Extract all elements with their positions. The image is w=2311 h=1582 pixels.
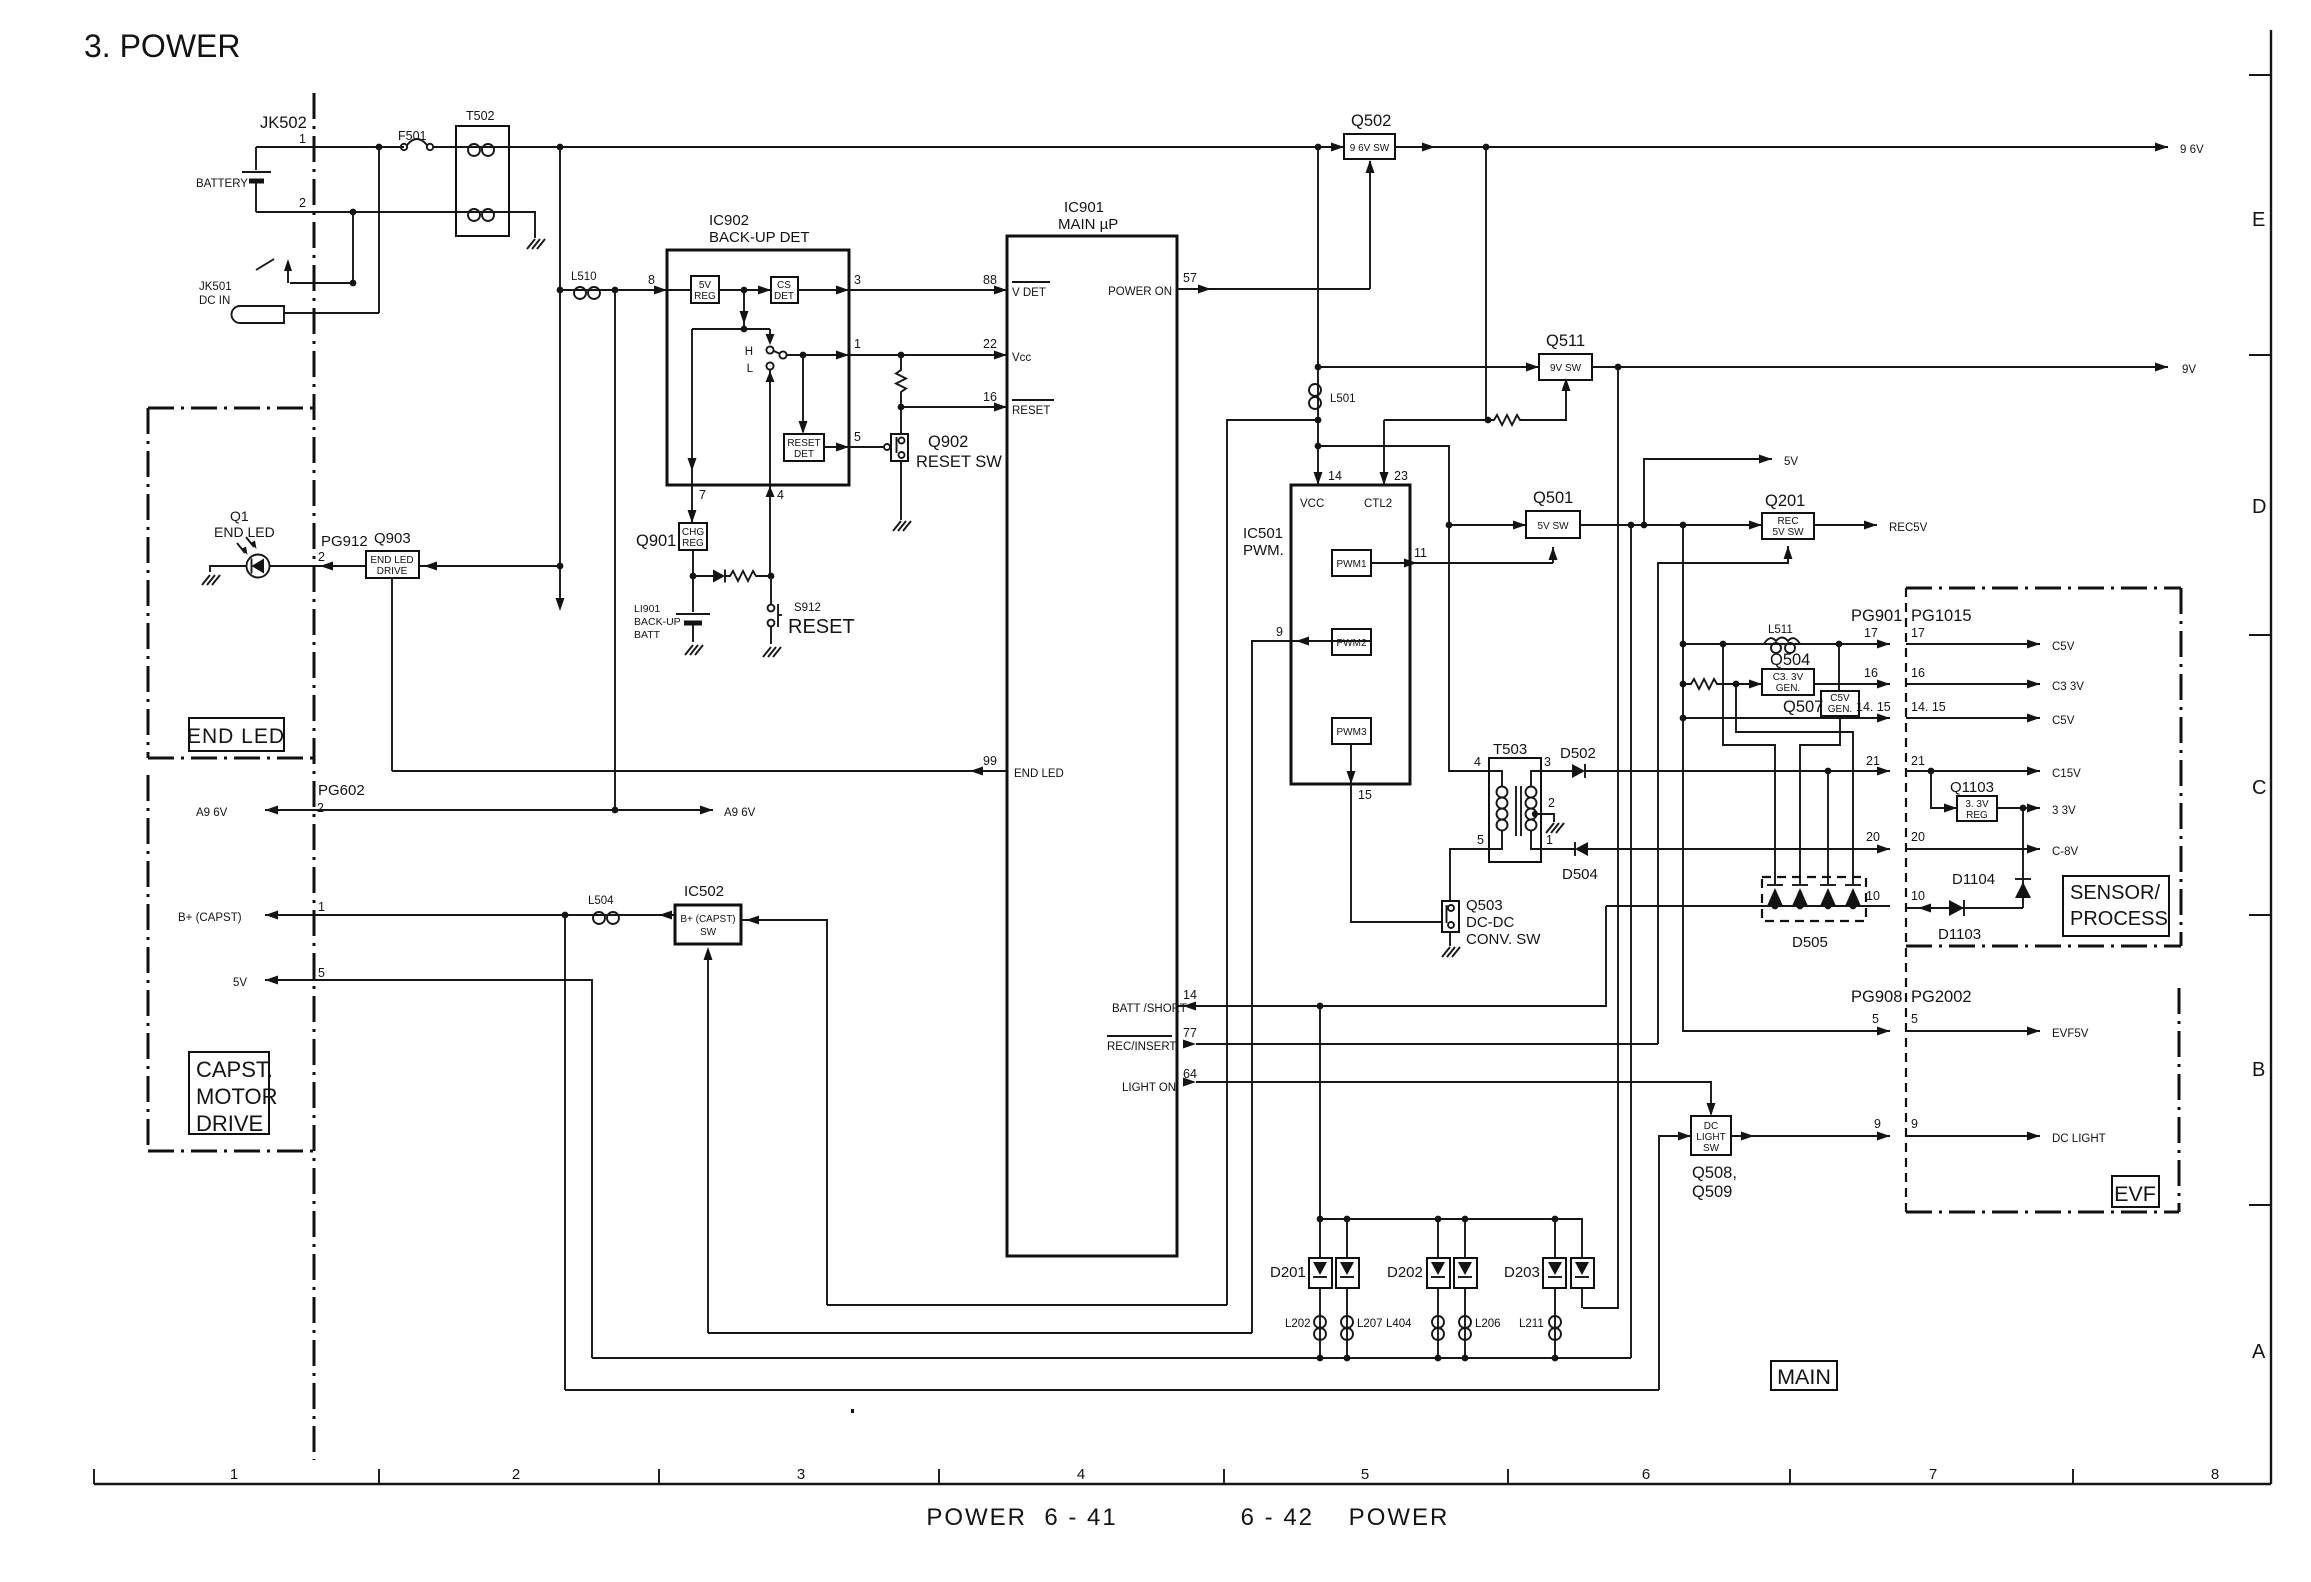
node Q502 out junction <box>1483 144 1490 151</box>
inductor L211 <box>1549 1316 1561 1340</box>
node fuse net junction <box>557 144 564 151</box>
svg-text:EVF: EVF <box>2114 1182 2156 1206</box>
svg-text:Q1: Q1 <box>230 508 249 524</box>
arrow PG912 pin2 left <box>320 562 333 571</box>
inductor L404 <box>1432 1316 1444 1340</box>
wire PWM2 jog bus <box>708 1332 1252 1334</box>
wire jack switch vertical <box>352 212 354 283</box>
transistor Q502 box <box>1344 134 1395 159</box>
wire T503 pin5 to Q503 <box>1450 849 1489 901</box>
battery symbol <box>242 172 271 181</box>
inductor L501 <box>1309 384 1321 409</box>
svg-text:REG: REG <box>1966 810 1988 821</box>
wire A96V net vertical <box>614 290 616 810</box>
node Q901 diode junction <box>690 573 697 580</box>
IC501 PWM box <box>1291 485 1410 784</box>
svg-text:2: 2 <box>512 1466 520 1483</box>
wire D504 to pin20 row <box>1588 848 1890 850</box>
svg-text:PG901: PG901 <box>1851 607 1902 625</box>
wire 5V REG to CS DET <box>719 289 771 291</box>
svg-text:PWM3: PWM3 <box>1337 727 1367 738</box>
node D505-1 bottom <box>1772 903 1779 910</box>
arrow into IC502 bottom <box>704 947 713 960</box>
fuse F501 <box>401 139 433 150</box>
wire 9V net vertical to D203 <box>1583 367 1618 1308</box>
svg-text:Q201: Q201 <box>1765 492 1805 510</box>
wire pin2 row <box>256 211 456 213</box>
wire H drop <box>769 329 771 343</box>
svg-text:Q903: Q903 <box>374 530 411 547</box>
wire B+ CAPST row <box>265 914 675 916</box>
svg-text:C15V: C15V <box>2052 768 2081 780</box>
wire C5V jog to D505-1 <box>1723 644 1775 884</box>
svg-text:D201: D201 <box>1270 1264 1306 1281</box>
wire RESET row <box>901 406 1007 408</box>
svg-text:5: 5 <box>1911 1012 1918 1026</box>
wire D203a to coil <box>1554 1288 1556 1358</box>
arrow into IC902 pin8 <box>654 286 667 295</box>
inductor L504 <box>593 912 619 924</box>
svg-text:L202: L202 <box>1285 1318 1311 1330</box>
arrow REC5V <box>1864 521 1877 530</box>
svg-text:IC902: IC902 <box>709 212 749 229</box>
svg-text:DC IN: DC IN <box>199 295 230 307</box>
svg-text:LIGHT ON: LIGHT ON <box>1122 1082 1176 1094</box>
node Q1103 feed <box>1928 768 1935 775</box>
wire DC LIGHT SW output <box>1731 1135 1890 1137</box>
DC IN plug symbol <box>232 306 285 323</box>
wire PWM2 pin9 row <box>1252 641 1371 1333</box>
svg-text:END LED: END LED <box>370 555 413 566</box>
wire pin10 sensor row <box>1906 907 2023 909</box>
wire pin1 row <box>256 146 404 148</box>
wire LIGHT ON row <box>1196 1082 1711 1114</box>
node 9V tap <box>1315 364 1322 371</box>
pin 5 labels <box>1872 1012 1918 1026</box>
arrow END LED out of IC901 <box>970 767 983 776</box>
arrow into Q903 <box>424 562 437 571</box>
arrow into IC501 VCC pin14 <box>1314 472 1323 485</box>
CAPST board dash-dot box <box>148 775 314 1151</box>
svg-text:BATTERY: BATTERY <box>196 178 248 190</box>
svg-text:DRIVE: DRIVE <box>196 1111 263 1136</box>
arrow B+ CAPST left <box>265 911 278 920</box>
svg-text:10: 10 <box>1866 889 1880 903</box>
svg-text:5V: 5V <box>233 977 247 989</box>
frame tick row E/D boundary <box>2249 74 2271 76</box>
diode D505-3 <box>1820 885 1836 906</box>
transistor Q511 box <box>1539 354 1592 380</box>
arrow pin9 boundary <box>1877 1132 1890 1141</box>
node bus L404 <box>1435 1355 1442 1362</box>
svg-text:PG2002: PG2002 <box>1911 988 1972 1006</box>
svg-text:DC: DC <box>1704 1121 1718 1132</box>
arrow 9 6V <box>2155 143 2168 152</box>
wire T503 pin1 row <box>1541 848 1575 850</box>
wire F501 to T502 <box>433 146 456 148</box>
switch H/L contacts <box>745 346 787 375</box>
svg-text:17: 17 <box>1911 626 1925 640</box>
svg-text:EVF5V: EVF5V <box>2052 1028 2089 1040</box>
pin 21 labels <box>1866 754 1925 768</box>
svg-text:IC901: IC901 <box>1064 199 1104 216</box>
wire PWM1 pin11 row <box>1371 562 1553 564</box>
wire EVF5V row <box>1906 1030 2040 1032</box>
node Q511 out junction <box>1615 364 1622 371</box>
svg-text:6: 6 <box>1642 1466 1650 1483</box>
pin 20 labels <box>1866 830 1925 844</box>
svg-text:Q1103: Q1103 <box>1950 779 1994 796</box>
SENSOR/PROCESS board dash-dot box <box>1906 588 2181 946</box>
svg-text:L510: L510 <box>571 271 597 283</box>
svg-text:L211: L211 <box>1519 1318 1544 1330</box>
MAIN board name box <box>1771 1361 1837 1390</box>
svg-text:GEN.: GEN. <box>1828 704 1852 715</box>
node Q501 input tap <box>1446 522 1453 529</box>
svg-text:REC5V: REC5V <box>1889 522 1928 534</box>
T503 primary winding <box>1489 771 1508 849</box>
node L510 tap <box>557 287 564 294</box>
node bus L207 <box>1344 1355 1351 1362</box>
svg-text:10: 10 <box>1911 889 1925 903</box>
svg-text:A9 6V: A9 6V <box>196 807 228 819</box>
svg-text:15: 15 <box>1358 788 1372 802</box>
svg-text:CHG: CHG <box>682 527 704 538</box>
svg-text:20: 20 <box>1866 830 1880 844</box>
arrow A9 6V left <box>265 806 278 815</box>
transformer T502 box <box>456 126 509 236</box>
switch DC LIGHT SW box <box>1691 1116 1731 1155</box>
arrow into IC901 pin88 <box>994 286 1007 295</box>
ground T503 pin2 <box>1546 823 1564 833</box>
arrow into Q501 bottom <box>1549 547 1558 560</box>
wire C3 3V sensor row <box>1906 683 2040 685</box>
wire D505-3 to C15V row <box>1827 771 1829 884</box>
svg-text:2: 2 <box>318 550 325 564</box>
wire Q201 out <box>1814 524 1877 526</box>
arrow pin4 up at box edge <box>766 486 775 497</box>
arrow into RESET DET <box>799 421 808 434</box>
node 14.15 row <box>1680 715 1687 722</box>
wire Q504 out <box>1814 683 1890 685</box>
diode array D505 dashed box <box>1762 877 1866 921</box>
arrow pin15 down <box>1347 771 1356 784</box>
main board dash-dot boundary <box>313 93 316 1460</box>
T502 primary winding <box>456 144 509 156</box>
svg-text:Q504: Q504 <box>1770 651 1810 669</box>
diode D1104 <box>2015 879 2031 898</box>
svg-text:22: 22 <box>983 337 997 351</box>
svg-text:JK502: JK502 <box>260 114 307 132</box>
wire battery net vertical <box>559 147 561 600</box>
svg-text:DET: DET <box>794 449 814 460</box>
IC502 B+ CAPST SW box <box>675 905 741 944</box>
wire S912 to ground <box>770 626 772 644</box>
svg-text:IC502: IC502 <box>684 883 724 900</box>
svg-text:8: 8 <box>2211 1466 2219 1483</box>
wire C-8V sensor row <box>1906 848 2040 850</box>
wire Q201 control riser <box>1658 546 1788 1044</box>
svg-text:L207: L207 <box>1357 1318 1383 1330</box>
wire T503 pin4 feed <box>1318 446 1489 771</box>
svg-text:2: 2 <box>299 196 306 210</box>
node D505 diode3 tap <box>1825 768 1832 775</box>
wire RESET DET drop <box>802 355 804 432</box>
svg-text:3. POWER: 3. POWER <box>84 28 240 64</box>
svg-text:L404: L404 <box>1386 1318 1412 1330</box>
diode D502 <box>1572 764 1585 778</box>
wire Q511 control resistor row <box>1384 419 1488 421</box>
svg-text:PROCESS: PROCESS <box>2070 908 2168 930</box>
arrow pin14.15 <box>1877 714 1890 723</box>
arrow into IC502 right edge <box>746 916 759 925</box>
wire L501 left jog <box>1227 420 1318 1305</box>
wire B+ bottom bus <box>565 1389 1659 1391</box>
svg-text:BACK-UP DET: BACK-UP DET <box>709 229 810 246</box>
wire 5V bus riser <box>1630 525 1632 1358</box>
svg-text:VCC: VCC <box>1300 498 1324 510</box>
svg-text:9V: 9V <box>2182 364 2196 376</box>
wire Q902 to ground <box>900 461 902 520</box>
right frame border line <box>2270 30 2272 1484</box>
wire T502 secondary to ground <box>509 212 535 238</box>
SENSOR/PROCESS name box <box>2063 876 2169 936</box>
svg-text:RESET: RESET <box>788 616 855 638</box>
wire B+ vertical to bus2 <box>564 915 566 1390</box>
wire T502 out top <box>509 146 1344 148</box>
CS DET box <box>771 277 798 303</box>
svg-text:5V SW: 5V SW <box>1772 527 1804 538</box>
arrow pin64 out <box>1183 1078 1196 1087</box>
svg-text:MOTOR: MOTOR <box>196 1084 277 1109</box>
connector PG901 boundary dashed line <box>1905 588 1907 1212</box>
arrow pin10 left <box>1918 904 1931 913</box>
wire pin10 row <box>1606 905 1890 907</box>
arrow into CS DET <box>758 286 771 295</box>
arrow pin16 <box>1877 680 1890 689</box>
svg-text:V DET: V DET <box>1012 287 1046 299</box>
svg-text:Q509: Q509 <box>1692 1183 1732 1201</box>
svg-text:LI901: LI901 <box>634 603 660 615</box>
wire into Q504 <box>1736 683 1762 685</box>
wire DC LIGHT SW input <box>1659 1136 1691 1390</box>
node bus L211 <box>1552 1355 1559 1362</box>
wire T503 pin3 row <box>1541 770 1572 772</box>
wire D202a to coil <box>1437 1288 1439 1358</box>
svg-text:RESET SW: RESET SW <box>916 453 1002 471</box>
svg-text:9V SW: 9V SW <box>1550 363 1582 374</box>
svg-text:2: 2 <box>1548 796 1555 810</box>
arrow pin21 <box>1877 767 1890 776</box>
wire LI901 to ground <box>692 625 694 642</box>
pin 9 labels <box>1874 1117 1918 1131</box>
node Vcc resistor tap <box>898 352 905 359</box>
node top bus D201b <box>1344 1216 1351 1223</box>
arrow pin3 <box>836 286 849 295</box>
svg-text:2: 2 <box>317 801 324 815</box>
node L510 out <box>612 287 619 294</box>
ground LI901 <box>685 645 703 655</box>
svg-text:4: 4 <box>1077 1466 1085 1483</box>
arrow battery net stub down <box>556 598 565 611</box>
svg-text:D505: D505 <box>1792 934 1828 951</box>
wire POWER ON row <box>1177 288 1370 290</box>
svg-text:5: 5 <box>1872 1012 1879 1026</box>
node D505-2 bottom <box>1797 903 1804 910</box>
svg-text:IC501: IC501 <box>1243 525 1283 542</box>
inductor L206 <box>1459 1316 1471 1340</box>
wire D1104 vertical <box>2022 808 2024 908</box>
node RESET row <box>898 404 905 411</box>
svg-text:5V: 5V <box>699 280 712 291</box>
wire 5V bottom bus <box>592 1357 1631 1359</box>
wire battery to pin2 row <box>255 183 257 212</box>
svg-text:CONV. SW: CONV. SW <box>1466 931 1541 948</box>
node C5V feed tap <box>1680 522 1687 529</box>
svg-text:9: 9 <box>1874 1117 1881 1131</box>
arrow into Q1103 <box>1944 804 1957 813</box>
svg-text:CTL2: CTL2 <box>1364 498 1392 510</box>
node A9 6V junction <box>612 807 619 814</box>
svg-text:PWM2: PWM2 <box>1337 638 1367 649</box>
svg-text:SW: SW <box>700 927 717 938</box>
svg-text:9 6V SW: 9 6V SW <box>1350 143 1390 154</box>
arrow A9 6V right <box>700 806 713 815</box>
node pin1/DCin junction <box>376 144 383 151</box>
svg-text:5: 5 <box>1477 833 1484 847</box>
wire pin11 up to Q501 control <box>1552 547 1554 563</box>
svg-text:H: H <box>745 346 753 358</box>
svg-text:BATT /SHORT: BATT /SHORT <box>1112 1003 1187 1015</box>
wire Q502 control vertical <box>1369 161 1371 289</box>
stray dot mark <box>851 1409 854 1413</box>
wire Q501 out row <box>1580 524 1762 526</box>
svg-text:11: 11 <box>1414 546 1427 560</box>
svg-text:POWER ON: POWER ON <box>1108 286 1172 298</box>
svg-text:PWM1: PWM1 <box>1337 559 1367 570</box>
svg-text:B: B <box>2252 1059 2265 1081</box>
svg-text:C3 3V: C3 3V <box>2052 681 2084 693</box>
svg-text:BACK-UP: BACK-UP <box>634 616 681 628</box>
wire CS DET to pin3 / V DET row <box>798 289 1007 291</box>
arrow C5V2 <box>2027 714 2040 723</box>
svg-text:5V: 5V <box>1784 456 1798 468</box>
svg-text:D203: D203 <box>1504 1264 1540 1281</box>
node BATT/SHORT diode bus tap <box>1317 1003 1324 1010</box>
svg-text:JK501: JK501 <box>199 281 232 293</box>
svg-text:5V SW: 5V SW <box>1537 521 1569 532</box>
svg-text:SENSOR/: SENSOR/ <box>2070 882 2160 904</box>
svg-text:S912: S912 <box>794 602 821 614</box>
IC901 RESET pin text <box>1012 400 1054 417</box>
ruler ticks <box>93 1469 95 1484</box>
wire IC902 pin7 vertical <box>691 329 693 523</box>
node D505-4 bottom <box>1850 903 1857 910</box>
svg-text:D1103: D1103 <box>1938 926 1981 943</box>
svg-text:C5V: C5V <box>1830 693 1850 704</box>
svg-text:14: 14 <box>1183 988 1197 1002</box>
svg-text:9: 9 <box>1911 1117 1918 1131</box>
EVF board dash-dot border <box>1906 988 2179 1212</box>
svg-text:7: 7 <box>1929 1466 1937 1483</box>
arrow pin5 <box>836 443 849 452</box>
svg-text:1: 1 <box>1546 833 1553 847</box>
wire C5V2 sensor row <box>1906 717 2040 719</box>
svg-text:D504: D504 <box>1562 866 1598 883</box>
IC901 REC/INSERT pin text <box>1107 1036 1176 1053</box>
transistor Q504 box <box>1762 669 1814 695</box>
svg-text:8: 8 <box>648 273 655 287</box>
arrow pin9 out <box>1296 637 1309 646</box>
svg-text:16: 16 <box>983 390 997 404</box>
svg-text:4: 4 <box>1474 755 1481 769</box>
inductor L510 <box>560 287 666 299</box>
wire IC902 pin4 vertical <box>769 370 771 576</box>
svg-text:A: A <box>2252 1341 2266 1363</box>
svg-text:D502: D502 <box>1560 745 1596 762</box>
wire DCin vertical <box>378 147 380 313</box>
arrow pin17 <box>1877 640 1890 649</box>
diode D203b <box>1571 1258 1594 1288</box>
svg-text:DC LIGHT: DC LIGHT <box>2052 1133 2106 1145</box>
svg-text:PG602: PG602 <box>318 782 365 799</box>
svg-text:Q507: Q507 <box>1783 698 1823 716</box>
arrow 5V <box>1759 455 1772 464</box>
wire H feed row <box>692 328 770 330</box>
IC901 V DET pin text <box>1012 282 1050 299</box>
svg-text:DC-DC: DC-DC <box>1466 914 1514 931</box>
wire IC502 jog bus <box>827 1304 1227 1306</box>
resistor Q901 row <box>725 571 771 581</box>
svg-text:20: 20 <box>1911 830 1925 844</box>
T502 secondary winding <box>456 209 509 221</box>
node C5V row a <box>1680 641 1687 648</box>
svg-text:17: 17 <box>1864 626 1878 640</box>
svg-text:MAIN µP: MAIN µP <box>1058 216 1118 233</box>
arrow pin5 boundary <box>1877 1027 1890 1036</box>
wire DC LIGHT row evf <box>1906 1135 2040 1137</box>
wire battery to pin1 row <box>255 147 257 170</box>
svg-text:57: 57 <box>1183 271 1197 285</box>
switch S912 <box>768 576 782 627</box>
svg-text:Q502: Q502 <box>1351 112 1391 130</box>
svg-text:END LED: END LED <box>214 524 275 540</box>
svg-text:BATT: BATT <box>634 629 661 641</box>
svg-text:1: 1 <box>230 1466 238 1483</box>
node RESET DET tap <box>800 352 807 359</box>
svg-text:77: 77 <box>1183 1026 1197 1040</box>
pin 14.15 labels <box>1856 700 1946 714</box>
arrow into H contact <box>766 334 775 345</box>
node bus L206 <box>1462 1355 1469 1362</box>
svg-text:14: 14 <box>1328 469 1342 483</box>
node after 5V REG <box>741 287 748 294</box>
node Q502 input junction <box>1315 144 1322 151</box>
wire C3.3V row resistor <box>1683 679 1736 689</box>
svg-text:CAPST.: CAPST. <box>196 1057 273 1082</box>
wire END LED row <box>392 770 1007 772</box>
inductor L207 <box>1341 1316 1353 1340</box>
wire into Q1103 <box>1931 771 1957 808</box>
svg-text:3 3V: 3 3V <box>2052 805 2076 817</box>
arrow pin4 up inner <box>766 371 775 382</box>
arrow down mid <box>740 311 749 324</box>
arrow C3 3V <box>2027 680 2040 689</box>
arrow into DC LIGHT SW <box>1678 1132 1691 1141</box>
svg-text:CS: CS <box>777 280 791 291</box>
arrow into IC901 pin16 <box>994 403 1007 412</box>
svg-text:5: 5 <box>1361 1466 1369 1483</box>
